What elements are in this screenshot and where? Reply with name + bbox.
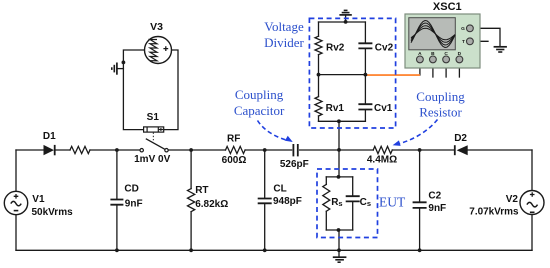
wire resistor to switch bbox=[90, 149, 140, 151]
capacitor CL plates bbox=[258, 199, 272, 204]
wire left rail bbox=[15, 150, 17, 250]
node CL top bbox=[263, 148, 267, 152]
ground (V3 loop, sideways) bbox=[112, 63, 117, 75]
diode D2 bbox=[455, 145, 468, 155]
svg-text:CD: CD bbox=[124, 184, 138, 195]
wire divider left branch bbox=[318, 22, 320, 121]
ground (bottom center) bbox=[333, 257, 347, 262]
wire right rail bbox=[531, 150, 533, 250]
svg-text:948pF: 948pF bbox=[273, 196, 302, 207]
wire divider bottom bbox=[319, 120, 366, 122]
svg-text:RF: RF bbox=[227, 134, 240, 145]
resistor Rv1 bbox=[315, 97, 322, 116]
svg-text:C: C bbox=[444, 51, 448, 57]
wire bottom rail bbox=[16, 249, 532, 251]
wire V3 left loop bbox=[123, 50, 144, 130]
svg-text:7.07kVrms: 7.07kVrms bbox=[469, 207, 519, 218]
svg-text:Divider: Divider bbox=[264, 35, 304, 50]
capacitor 526pF plates bbox=[293, 144, 297, 156]
arrow to coupling capacitor bbox=[258, 121, 295, 145]
wire scope terminal B stub bbox=[432, 63, 434, 77]
ground (scope) bbox=[494, 47, 507, 52]
oscilloscope terminals G T A B C D bbox=[417, 25, 474, 63]
wire EUT Cs branch bbox=[352, 177, 354, 230]
capacitor Cv1 plates bbox=[358, 104, 372, 109]
node divider ground bbox=[344, 20, 348, 24]
arrow to coupling resistor bbox=[392, 120, 438, 149]
resistor 4.4M bbox=[373, 146, 392, 153]
svg-text:B: B bbox=[431, 51, 435, 57]
node C2 top bbox=[418, 148, 422, 152]
ground (above divider, inverted) bbox=[339, 10, 351, 15]
svg-text:Cv1: Cv1 bbox=[374, 103, 393, 114]
svg-text:Rs: Rs bbox=[331, 197, 342, 208]
wire C2 branch bbox=[419, 150, 421, 250]
resistor Rv2 bbox=[315, 36, 322, 54]
wire CD branch bbox=[116, 150, 118, 250]
wire EUT top bbox=[326, 176, 352, 178]
wire orange (divider tap to scope A) bbox=[365, 74, 420, 76]
capacitor Cv2 plates bbox=[358, 43, 372, 48]
svg-text:V1: V1 bbox=[32, 194, 45, 205]
svg-text:Rv1: Rv1 bbox=[326, 103, 345, 114]
wire switch to RF bbox=[168, 149, 225, 151]
diode D1 bbox=[44, 145, 55, 155]
svg-text:C2: C2 bbox=[428, 190, 441, 201]
wire top rail left bbox=[16, 149, 44, 151]
wire scope terminal A stub bbox=[419, 63, 421, 75]
oscilloscope XSC1 bbox=[405, 14, 480, 68]
svg-text:G: G bbox=[461, 26, 465, 32]
svg-text:EUT: EUT bbox=[379, 194, 406, 209]
wire ground stub left bbox=[117, 68, 123, 70]
source V1 bbox=[4, 191, 27, 214]
node RT top bbox=[189, 148, 193, 152]
node CL bottom bbox=[263, 248, 267, 252]
wire CL branch bbox=[264, 150, 266, 250]
node RT bottom bbox=[189, 248, 193, 252]
wire scope terminal C stub bbox=[445, 63, 447, 77]
wire D1 to resistor bbox=[55, 149, 70, 151]
svg-text:600Ω: 600Ω bbox=[222, 155, 247, 166]
svg-text:A: A bbox=[418, 51, 422, 57]
wire 4.4M to D2 bbox=[392, 149, 454, 151]
node V3 ground tap bbox=[122, 61, 126, 65]
oscilloscope screen bbox=[409, 18, 456, 50]
svg-text:T: T bbox=[462, 39, 465, 45]
svg-text:V3: V3 bbox=[150, 21, 163, 33]
wire scope terminal D stub bbox=[458, 63, 460, 77]
wire scope T stub bbox=[473, 40, 488, 42]
svg-text:Cv2: Cv2 bbox=[375, 42, 394, 53]
svg-text:RT: RT bbox=[195, 185, 208, 196]
svg-text:CL: CL bbox=[273, 183, 286, 194]
node CD top bbox=[115, 148, 119, 152]
svg-text:9nF: 9nF bbox=[125, 199, 143, 210]
node divider mid left bbox=[317, 73, 321, 77]
source V2 bbox=[520, 191, 544, 215]
svg-text:1mV 0V: 1mV 0V bbox=[134, 154, 170, 165]
wire divider top bbox=[319, 21, 366, 23]
capacitor Cs plates bbox=[346, 196, 360, 201]
svg-text:Rv2: Rv2 bbox=[326, 43, 345, 54]
switch S1 control link (dotted) bbox=[152, 133, 154, 141]
node EUT bottom bbox=[337, 228, 341, 232]
svg-text:Coupling: Coupling bbox=[235, 87, 284, 102]
resistor RT bbox=[188, 189, 195, 212]
resistor (series, unlabeled) bbox=[70, 146, 90, 153]
wire V3 right loop bbox=[164, 50, 178, 130]
svg-text:50kVrms: 50kVrms bbox=[32, 207, 74, 218]
box EUT (dashed) bbox=[317, 169, 378, 238]
svg-text:526pF: 526pF bbox=[280, 159, 309, 170]
wire divider ground stub bbox=[345, 15, 347, 22]
node C2 bottom bbox=[418, 248, 422, 252]
wire RT branch bbox=[190, 150, 192, 250]
switch S1 coil box bbox=[144, 127, 164, 132]
node center bottom bbox=[337, 248, 341, 252]
node center top bbox=[337, 148, 341, 152]
capacitor CD plates bbox=[110, 200, 123, 205]
svg-text:S1: S1 bbox=[147, 112, 160, 123]
svg-text:Capacitor: Capacitor bbox=[234, 103, 285, 118]
svg-text:Cs: Cs bbox=[360, 197, 371, 208]
svg-text:V2: V2 bbox=[506, 194, 519, 205]
wire divider right branch bbox=[364, 22, 366, 121]
wire divider middle bbox=[319, 74, 366, 76]
wire 526pF to 4.4M bbox=[300, 149, 374, 151]
wire EUT Rs branch bbox=[325, 177, 327, 230]
svg-text:9nF: 9nF bbox=[428, 203, 446, 214]
node divider bottom bbox=[337, 119, 341, 123]
svg-text:D2: D2 bbox=[454, 133, 467, 144]
wire center node branch bbox=[338, 121, 340, 256]
resistor RF bbox=[226, 146, 246, 153]
svg-text:D: D bbox=[458, 51, 462, 57]
box Voltage Divider (dashed) bbox=[309, 18, 395, 128]
svg-text:XSC1: XSC1 bbox=[433, 1, 462, 13]
node divider mid right bbox=[364, 73, 368, 77]
svg-text:D1: D1 bbox=[43, 131, 56, 142]
switch S1 contacts bbox=[140, 149, 168, 152]
svg-text:6.82kΩ: 6.82kΩ bbox=[195, 199, 228, 210]
svg-text:Voltage: Voltage bbox=[264, 19, 304, 34]
node CD bottom bbox=[115, 248, 119, 252]
wire D2 to right corner bbox=[468, 149, 532, 151]
oscilloscope body bbox=[405, 14, 480, 68]
svg-text:Resistor: Resistor bbox=[419, 104, 462, 119]
svg-text:4.4MΩ: 4.4MΩ bbox=[367, 155, 397, 166]
source V3 bbox=[145, 37, 172, 64]
node EUT top bbox=[337, 175, 341, 179]
switch S1 arm bbox=[146, 139, 165, 150]
oscilloscope screen waveform traces bbox=[411, 21, 455, 48]
resistor Rs bbox=[323, 184, 330, 211]
wire RF to 526pF bbox=[245, 149, 292, 151]
wire scope G to ground bbox=[473, 28, 500, 46]
wire EUT bottom bbox=[326, 229, 352, 231]
capacitor C2 plates bbox=[413, 202, 427, 208]
svg-text:Coupling: Coupling bbox=[416, 89, 465, 104]
